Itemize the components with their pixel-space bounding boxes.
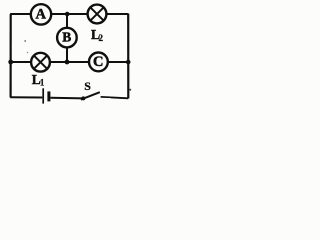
lamp L1 (circle with cross) [31,53,50,72]
wire: meter B down to middle junction [66,47,68,62]
wire: top, L2 to right corner [106,13,128,15]
battery: short thick plate [47,91,50,101]
wire: bottom, left corner to battery [10,96,42,98]
wire: top, A to lamp L2 through junction [51,13,88,15]
wire: middle, left wire to lamp L1 [11,61,32,63]
wire: right vertical side of loop [127,14,129,99]
battery: long thin plate [42,88,44,103]
wire: middle, C to right wire [108,61,128,63]
node: junction of right wire and middle branch [126,60,131,65]
meter C [89,53,108,72]
switch blade [81,92,100,99]
wire: drop from top junction to meter B [66,14,68,28]
scan speck on right wire [129,89,131,91]
meter B [57,28,77,48]
wire: middle, L1 through junction to meter C [50,61,89,63]
node: middle junction below B [65,60,70,65]
svg-text:B: B [62,30,71,45]
wire: bottom, battery to switch pivot [50,97,83,100]
svg-text:2: 2 [99,33,104,43]
ammeter A [31,4,51,24]
switch fixed contact [101,96,111,98]
svg-text:A: A [36,7,47,23]
wire: top, left corner to ammeter A [10,13,31,15]
node: top junction above meter B [65,12,70,17]
node: junction of left wire and middle branch [8,60,13,65]
lamp L2 (circle with cross) [88,5,107,24]
svg-text:S: S [84,79,91,93]
svg-text:1: 1 [40,77,45,87]
wire: bottom, contact to right corner [111,96,128,99]
scan speck upper-left area [24,40,26,42]
scan speck left-middle area [27,52,28,53]
wire: left vertical side of loop [10,14,12,97]
svg-text:C: C [93,54,103,70]
switch pivot [81,96,85,100]
